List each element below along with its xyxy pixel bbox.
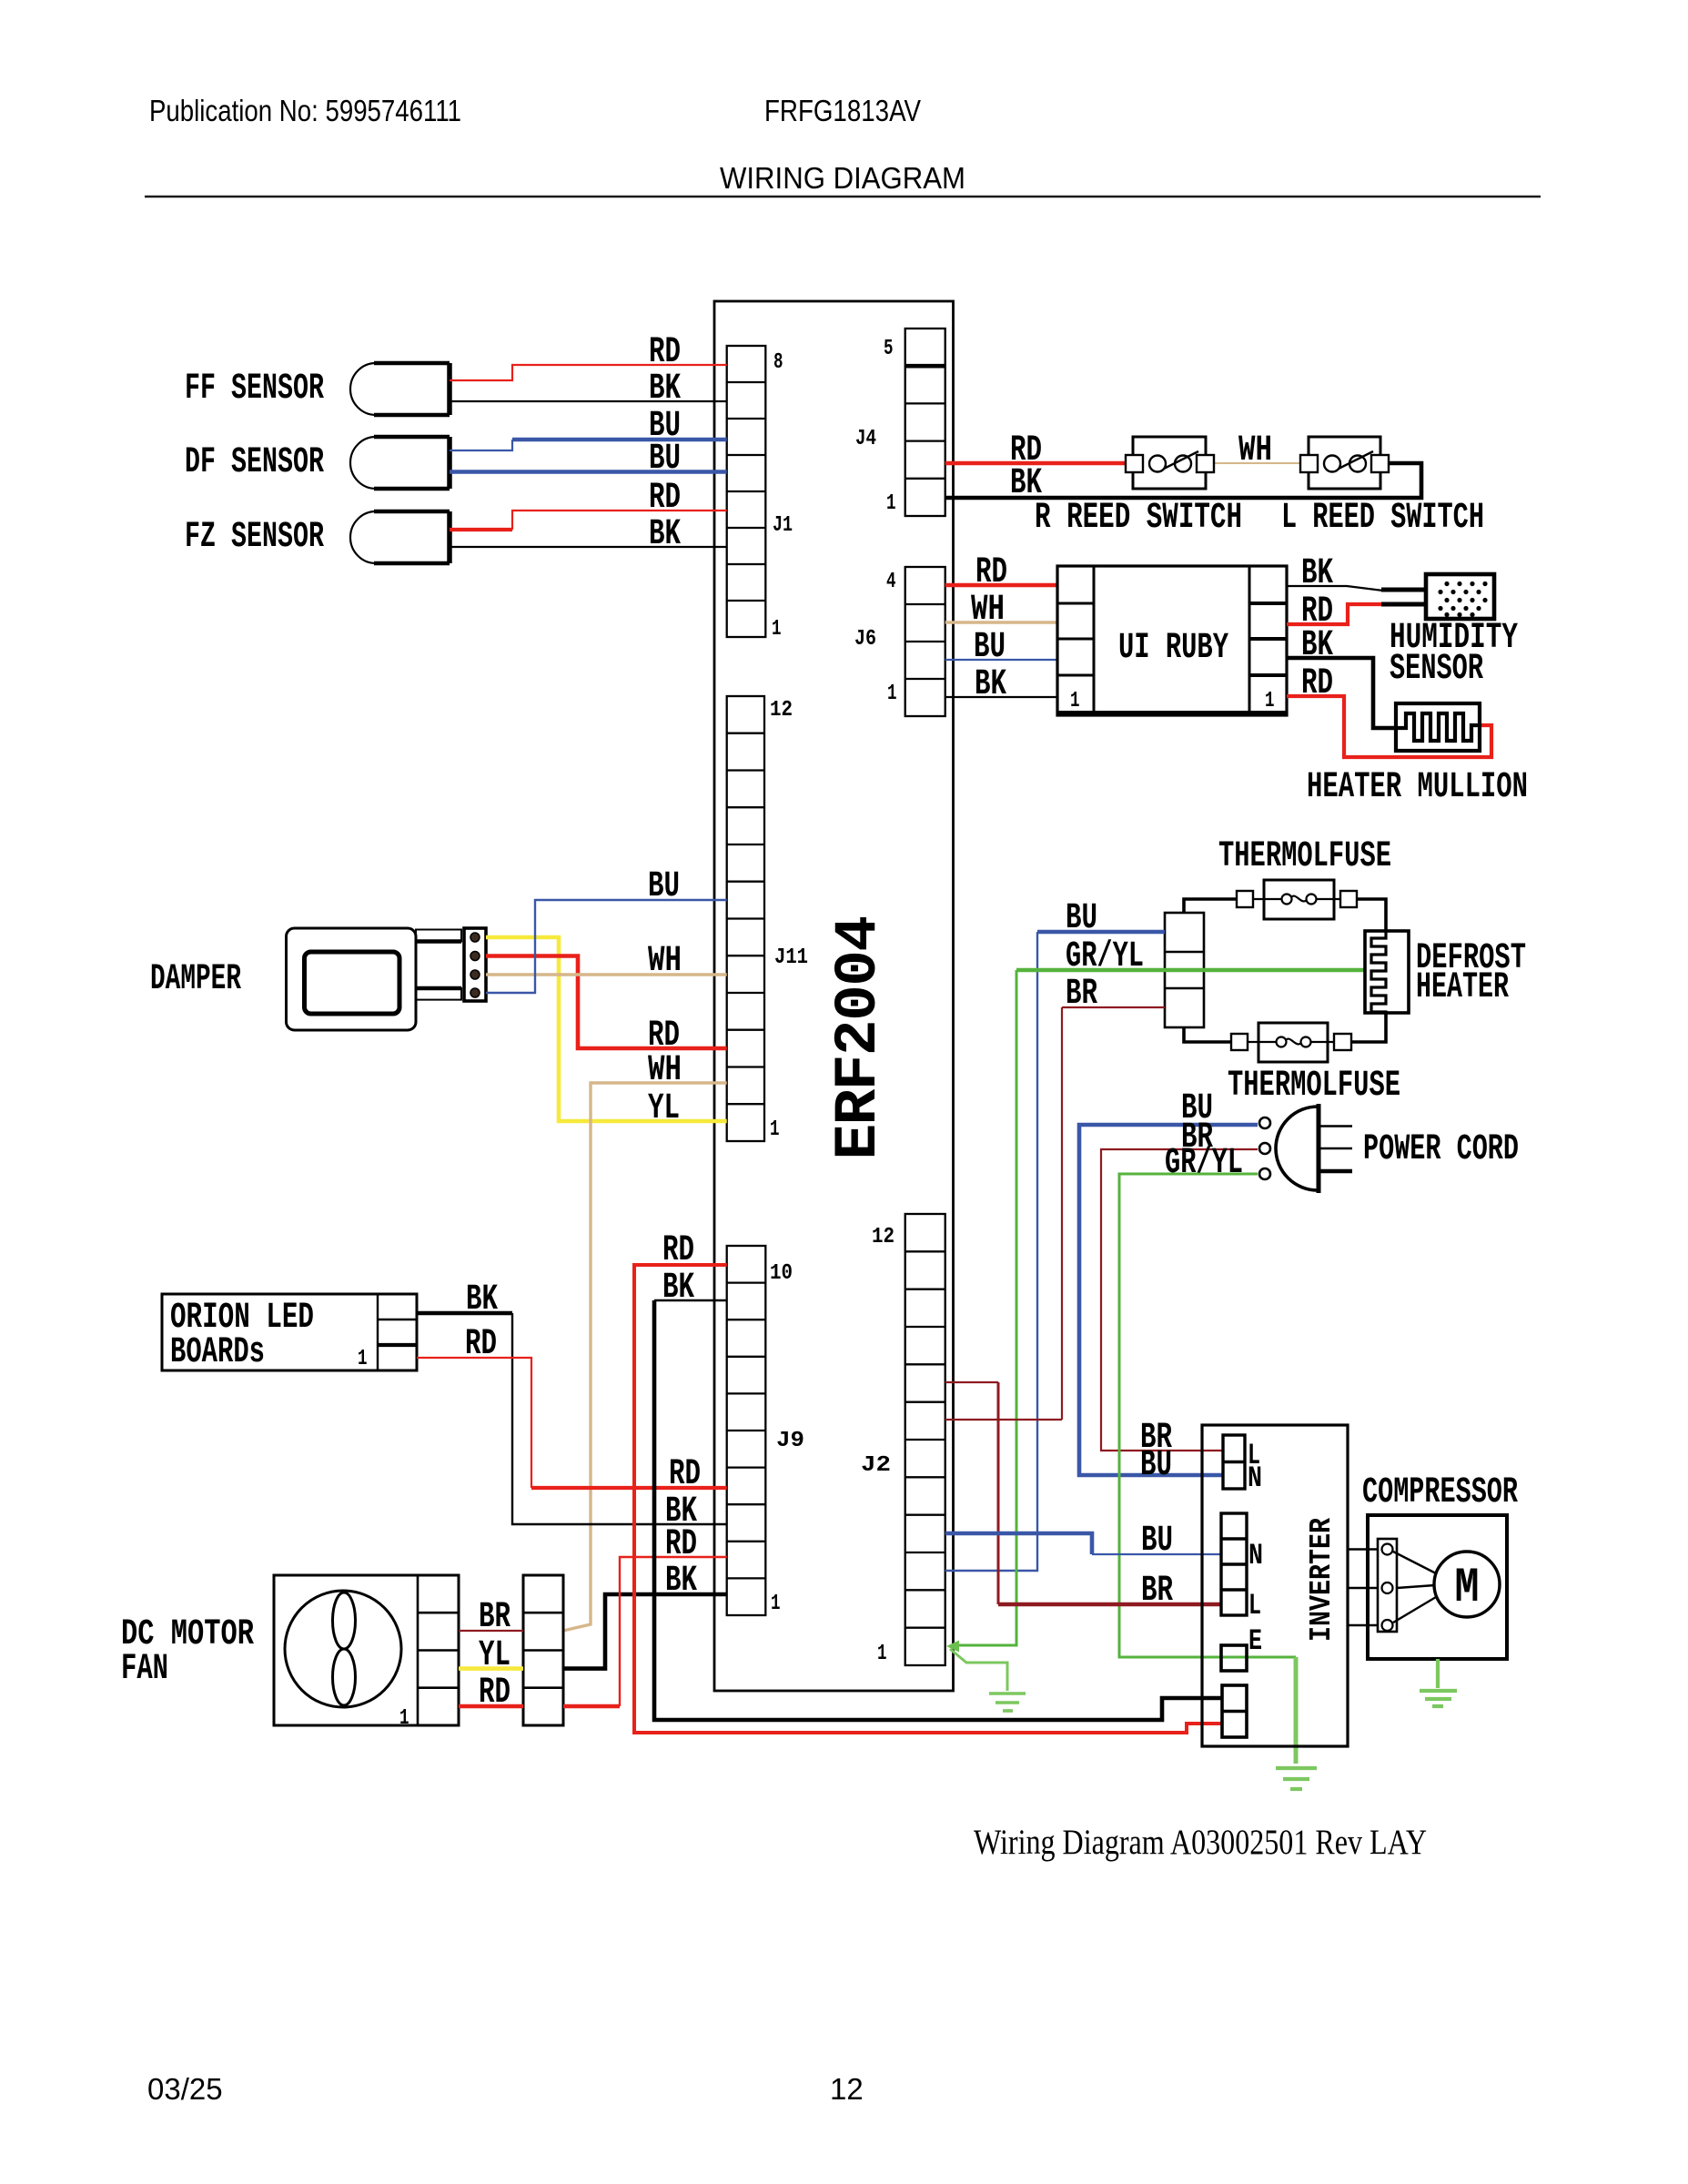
inverter box — [1202, 1425, 1348, 1746]
svg-text:J11: J11 — [774, 945, 808, 970]
svg-text:L: L — [1248, 1589, 1261, 1623]
svg-text:FZ SENSOR: FZ SENSOR — [185, 517, 324, 558]
svg-text:BK: BK — [649, 369, 681, 409]
svg-text:N: N — [1248, 1461, 1262, 1495]
svg-text:N: N — [1248, 1539, 1263, 1572]
svg-text:RD: RD — [465, 1324, 497, 1365]
arrowhead at J2 pin1 — [946, 1641, 959, 1653]
defrost heater connector — [1165, 913, 1204, 1027]
wire GR/YL riser to J2 pin1 — [952, 970, 1016, 1645]
svg-text:YL: YL — [479, 1635, 510, 1676]
connector J2 — [905, 1214, 945, 1665]
DC motor fan body — [274, 1575, 459, 1725]
defrost heater body — [1365, 931, 1409, 1013]
svg-text:J1: J1 — [773, 513, 793, 538]
svg-text:BK: BK — [466, 1279, 498, 1320]
wire damper RD to J11 pin3 — [486, 956, 727, 1049]
wire defrost connector to bottom thermofuse — [1184, 1027, 1231, 1042]
wire J6 pin1 BK to UI RUBY — [945, 696, 1057, 698]
wire UI RUBY BK to humidity sensor — [1287, 586, 1383, 591]
wire J11 pin2 WH to fan inline connector — [563, 1083, 727, 1631]
wire fan RD — [459, 1704, 523, 1709]
wire J4 pin1 BK to L reed switch — [945, 463, 1421, 498]
wire J9 pin10 RD riser to inverter plug — [634, 1265, 1222, 1733]
svg-text:WH: WH — [648, 941, 682, 982]
compressor ground drop — [1436, 1659, 1440, 1688]
wire fan BR — [459, 1630, 523, 1632]
power cord body — [1276, 1107, 1318, 1190]
inverter bottom terminal block — [1222, 1685, 1247, 1737]
wire UI RUBY RD to humidity sensor — [1287, 604, 1381, 624]
wire BU power cord to inverter N — [1079, 1125, 1258, 1475]
wire J4 pin2 RD to R reed switch — [945, 461, 1126, 466]
terminal rings — [1382, 1544, 1393, 1632]
wire inline connector RD to J9 pin2 — [563, 1704, 620, 1709]
wire ORION BK to J9 pin3 — [417, 1311, 512, 1316]
svg-text:BU: BU — [974, 627, 1006, 668]
svg-text:M: M — [1455, 1561, 1480, 1616]
svg-text:GR/YL: GR/YL — [1066, 936, 1144, 977]
svg-text:WH: WH — [648, 1050, 682, 1091]
defrost heater meander — [1371, 931, 1386, 1017]
svg-text:L REED SWITCH: L REED SWITCH — [1281, 498, 1484, 539]
wires inverter to compressor terminals — [1348, 1550, 1378, 1626]
svg-text:RD: RD — [665, 1524, 697, 1565]
svg-text:DF SENSOR: DF SENSOR — [185, 442, 324, 483]
svg-text:5: 5 — [884, 337, 894, 361]
svg-text:R REED SWITCH: R REED SWITCH — [1035, 498, 1242, 539]
svg-text:BR: BR — [479, 1597, 510, 1638]
svg-text:Publication No: 5995746111: Publication No: 5995746111 — [149, 94, 461, 127]
humidity sensor lead bottom — [1381, 602, 1426, 607]
compressor terminal strip — [1378, 1539, 1397, 1632]
svg-text:HEATER MULLION: HEATER MULLION — [1307, 767, 1528, 808]
connector J11 — [727, 696, 764, 1141]
connector J4 — [905, 329, 945, 516]
wire BR power cord to inverter L — [1101, 1149, 1258, 1451]
wire defrost connector to top thermofuse — [1184, 899, 1237, 913]
ground wire from J2 pin1 — [950, 1649, 1007, 1691]
wire damper YL to J11 pin1 — [486, 937, 727, 1121]
svg-text:RD: RD — [662, 1230, 694, 1271]
svg-text:FF SENSOR: FF SENSOR — [185, 369, 324, 409]
svg-text:03/25: 03/25 — [147, 2072, 223, 2106]
top thermofuse — [1237, 880, 1357, 919]
R reed switch — [1126, 437, 1214, 489]
header rule — [145, 196, 1541, 198]
connector J1 — [727, 346, 766, 637]
wire damper WH to J11 pin5 — [486, 973, 727, 976]
svg-text:FRFG1813AV: FRFG1813AV — [764, 94, 921, 127]
inverter terminal block E — [1221, 1645, 1247, 1671]
power cord wires right — [1318, 1125, 1352, 1127]
wire DF sensor BU to J1 pin6 — [450, 440, 512, 450]
wire J6 pin2 BU to UI RUBY — [945, 659, 1057, 661]
svg-text:Wiring Diagram A03002501 Rev L: Wiring Diagram A03002501 Rev LAY — [974, 1823, 1427, 1862]
svg-text:J2: J2 — [861, 1453, 891, 1478]
svg-text:1: 1 — [771, 1592, 781, 1616]
svg-text:1: 1 — [877, 1642, 887, 1666]
connector J9 — [727, 1246, 766, 1615]
wire GR/YL defrost heater — [1016, 968, 1365, 973]
svg-text:WIRING DIAGRAM: WIRING DIAGRAM — [720, 161, 965, 195]
svg-text:THERMOLFUSE: THERMOLFUSE — [1218, 836, 1391, 877]
DF sensor — [350, 437, 450, 489]
wire J2 pin7 BR — [945, 1419, 1062, 1421]
ground symbol under board — [989, 1694, 1026, 1711]
svg-text:BR: BR — [1141, 1571, 1173, 1612]
wire UI RUBY BK to heater mullion — [1287, 658, 1396, 728]
compressor box — [1368, 1515, 1507, 1659]
svg-text:BU: BU — [1141, 1521, 1173, 1562]
svg-text:RD: RD — [479, 1673, 510, 1714]
UI RUBY box — [1057, 566, 1287, 715]
svg-text:WH: WH — [971, 590, 1005, 631]
wire BU to defrost connector — [1037, 930, 1165, 935]
wire top thermofuse to defrost heater — [1357, 899, 1386, 931]
humidity sensor body — [1426, 574, 1494, 619]
svg-text:1: 1 — [887, 682, 897, 706]
svg-text:1: 1 — [770, 1117, 780, 1142]
svg-text:UI RUBY: UI RUBY — [1118, 628, 1228, 669]
svg-text:BR: BR — [1066, 974, 1097, 1015]
svg-text:DAMPER: DAMPER — [150, 959, 241, 1000]
wire UI RUBY RD to heater mullion — [1287, 696, 1491, 757]
svg-text:BU: BU — [648, 866, 680, 907]
connector J6 — [905, 567, 945, 716]
wire ORION RD to J9 pin4 — [417, 1358, 531, 1488]
svg-text:4: 4 — [886, 570, 896, 594]
svg-text:J4: J4 — [855, 427, 876, 451]
svg-text:12: 12 — [872, 1225, 895, 1249]
heater mullion body — [1396, 703, 1480, 751]
svg-text:8: 8 — [773, 350, 783, 375]
damper connector pins — [470, 933, 480, 997]
wire J6 pin3 WH to UI RUBY — [945, 621, 1057, 623]
inverter terminal block L N — [1223, 1435, 1245, 1489]
ORION LED boards box — [162, 1294, 417, 1370]
svg-text:RD: RD — [975, 552, 1007, 593]
wire FZ sensor BK to J1 pin3 — [450, 546, 727, 548]
inverter terminal block N L — [1221, 1513, 1247, 1615]
wire FZ sensor RD to J1 pin4 — [450, 528, 512, 531]
L reed switch — [1300, 437, 1389, 489]
bottom thermofuse — [1231, 1023, 1351, 1062]
svg-text:ERF2004: ERF2004 — [824, 917, 893, 1160]
wire damper BU to J11 pin7 — [486, 900, 727, 993]
svg-text:BK: BK — [665, 1561, 697, 1602]
heater mullion meander — [1396, 713, 1480, 741]
fan inline connector — [523, 1575, 563, 1725]
svg-text:BK: BK — [1301, 625, 1333, 666]
svg-text:BU: BU — [649, 439, 681, 480]
svg-text:THERMOLFUSE: THERMOLFUSE — [1228, 1066, 1400, 1107]
wire DF sensor BU to J1 pin5 — [450, 470, 727, 474]
svg-text:RD: RD — [649, 478, 681, 519]
wire BR to defrost connector — [1062, 1006, 1165, 1008]
wire J9 pin9 BK riser to inverter plug — [654, 1299, 727, 1301]
J4 thick divider — [905, 364, 945, 369]
wire J6 pin4 RD to UI RUBY — [945, 583, 1057, 588]
svg-text:1: 1 — [886, 491, 896, 516]
terminal fan-out lines — [1393, 1552, 1436, 1623]
svg-text:INVERTER: INVERTER — [1305, 1518, 1339, 1642]
svg-text:POWER CORD: POWER CORD — [1363, 1129, 1519, 1170]
svg-text:GR/YL: GR/YL — [1165, 1143, 1243, 1184]
svg-text:BK: BK — [975, 664, 1006, 705]
wire FF sensor BK to J1 pin7 — [450, 400, 727, 402]
svg-text:12: 12 — [770, 698, 793, 723]
svg-text:1: 1 — [1070, 689, 1080, 713]
svg-text:RD: RD — [1301, 663, 1333, 704]
damper body — [287, 928, 487, 1030]
wire inline connector BK to J9 pin1 — [563, 1594, 727, 1669]
svg-text:RD: RD — [669, 1454, 701, 1495]
svg-text:BOARDs: BOARDs — [170, 1332, 265, 1373]
svg-text:FAN: FAN — [121, 1649, 168, 1690]
svg-text:12: 12 — [830, 2072, 864, 2106]
svg-text:BK: BK — [1301, 553, 1333, 594]
svg-text:J6: J6 — [854, 627, 876, 652]
power cord terminal rings — [1259, 1117, 1270, 1179]
svg-text:1: 1 — [399, 1706, 409, 1731]
ground symbol under compressor — [1420, 1691, 1457, 1706]
wire bottom thermofuse to defrost heater — [1351, 1013, 1386, 1042]
main board ERF2004 outline — [714, 301, 954, 1691]
svg-text:BK: BK — [662, 1268, 694, 1309]
wire WH between reed switches — [1215, 462, 1300, 464]
svg-text:E: E — [1248, 1624, 1262, 1658]
wire J2 pin4 BU to inverter N — [945, 1533, 1092, 1554]
svg-text:1: 1 — [772, 617, 782, 642]
svg-text:RD: RD — [649, 332, 681, 373]
svg-text:BK: BK — [649, 514, 681, 555]
svg-text:10: 10 — [770, 1261, 793, 1286]
svg-text:1: 1 — [358, 1347, 368, 1371]
svg-text:J9: J9 — [776, 1429, 804, 1453]
svg-text:WH: WH — [1238, 430, 1272, 471]
svg-text:BU: BU — [1066, 898, 1097, 939]
svg-text:1: 1 — [1265, 689, 1275, 713]
svg-text:YL: YL — [648, 1088, 680, 1129]
ground symbol below inverter — [1276, 1768, 1317, 1789]
svg-text:BU: BU — [1140, 1445, 1172, 1486]
wire BR riser to inverter L — [997, 1382, 1000, 1604]
earth drop from inverter E — [1294, 1657, 1299, 1764]
wire J2 pin8 BR — [945, 1381, 998, 1383]
FZ sensor — [350, 511, 450, 563]
svg-text:SENSOR: SENSOR — [1390, 649, 1483, 690]
wire FF sensor RD to J1 pin8 — [450, 365, 727, 380]
wire GR/YL power cord to earth — [1119, 1174, 1296, 1657]
motor circle — [1434, 1552, 1500, 1617]
humidity sensor lead top — [1381, 588, 1426, 592]
FF sensor — [350, 363, 450, 415]
wire fan YL — [459, 1666, 523, 1671]
svg-text:HEATER: HEATER — [1416, 967, 1509, 1008]
svg-text:COMPRESSOR: COMPRESSOR — [1362, 1472, 1518, 1513]
